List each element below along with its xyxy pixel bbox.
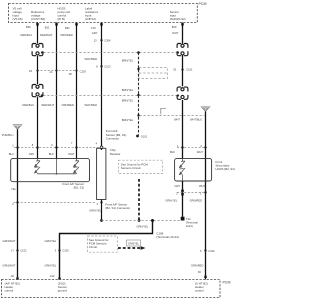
pin B21 xyxy=(45,23,58,29)
sensor ground riser junction dot xyxy=(151,219,154,222)
svg-text:BLK: BLK xyxy=(49,152,54,156)
junction dot on W5 connector xyxy=(177,51,179,53)
svg-text:C103: C103 xyxy=(104,64,111,68)
svg-text:C103: C103 xyxy=(80,70,87,74)
connector C304 symbol on W1 (upper) xyxy=(32,44,43,56)
wire WL from left shield xyxy=(17,129,19,279)
svg-text:A6: A6 xyxy=(11,274,15,278)
svg-text:GRN/YEL: GRN/YEL xyxy=(137,225,149,229)
sensor cell 2 (variable) xyxy=(74,159,79,174)
svg-text:GRN/YEL: GRN/YEL xyxy=(45,263,57,267)
dot right pin1 xyxy=(181,146,183,148)
svg-text:ORN/RED: ORN/RED xyxy=(60,33,72,37)
svg-text:C15: C15 xyxy=(91,26,96,30)
svg-text:B22: B22 xyxy=(65,26,70,30)
pin A6 xyxy=(11,274,19,280)
chip resistor bottom lead xyxy=(101,200,103,220)
Front A/F Sensor box xyxy=(11,159,90,182)
svg-text:WHT/BLU: WHT/BLU xyxy=(190,118,202,122)
svg-text:GRN/WHT: GRN/WHT xyxy=(3,263,16,267)
svg-text:WHT: WHT xyxy=(68,152,74,156)
junction 3 / C103 on WG xyxy=(55,249,69,253)
svg-text:WHT/RED: WHT/RED xyxy=(85,57,98,61)
svg-text:C102: C102 xyxy=(20,249,27,253)
svg-text:GRN/RED: GRN/RED xyxy=(190,198,202,202)
junction dot on dashed C304 line at W1 xyxy=(41,51,43,53)
svg-text:A5: A5 xyxy=(198,270,202,274)
svg-text:ORN/RED: ORN/RED xyxy=(62,103,74,107)
Front Secondary HO2S box xyxy=(175,159,212,181)
connector row (A/F sensor) dashed y=147.6 xyxy=(14,147,100,149)
dot right pin4 xyxy=(204,146,206,148)
shield symbol right xyxy=(201,107,210,112)
pin B29 xyxy=(26,23,39,29)
ground G101 dot xyxy=(136,135,139,138)
pin C15 xyxy=(91,23,103,29)
See Ground annotation box (middle) xyxy=(119,160,163,173)
junction number 13 / C304 on W4 xyxy=(94,38,111,42)
connector circles on WA xyxy=(181,190,183,192)
svg-text:G101: G101 xyxy=(141,135,148,139)
arrowhead xyxy=(141,246,146,250)
svg-text:WHT/RED: WHT/RED xyxy=(85,103,98,107)
svg-text:GRN/WHT: GRN/WHT xyxy=(3,239,16,243)
svg-text:PCM: PCM xyxy=(223,280,231,284)
dot pin6 xyxy=(55,146,57,148)
svg-text:BRN/YEL: BRN/YEL xyxy=(122,88,134,92)
dot W2 row2 xyxy=(55,69,57,71)
dot pin1 xyxy=(16,146,18,148)
shield drain dashed wire xyxy=(138,53,140,136)
chip resistor box xyxy=(97,148,106,199)
See Ground annotation box (bottom) xyxy=(88,236,118,252)
svg-text:WHT: WHT xyxy=(174,118,180,122)
dot pin2 xyxy=(16,201,18,203)
svg-text:WHT: WHT xyxy=(197,150,203,154)
annotation arrow (thick dashed) down to T12 link xyxy=(138,179,140,220)
dashed branch to right shield y115.5 xyxy=(140,115,205,117)
svg-text:VS cellvoltageinput(VS K6): VS cellvoltageinput(VS K6) xyxy=(13,7,23,22)
lower right connector row dashed y=192.5 xyxy=(177,192,205,194)
annotation arrow right (thick dashed) xyxy=(118,247,141,249)
svg-text:C103: C103 xyxy=(62,249,69,253)
wire W5 from B19 xyxy=(182,23,184,159)
chip resistor top terminal circle xyxy=(100,146,103,149)
svg-text:B29: B29 xyxy=(26,25,31,29)
wire WA from W5 through box to T12 xyxy=(182,181,184,217)
page link bracket xyxy=(161,108,166,114)
junction dot lower W1 xyxy=(41,94,43,96)
pin C12 xyxy=(50,274,61,280)
junction dot lower W5 xyxy=(177,94,179,96)
wire W2 RED/WHT from B21 xyxy=(56,23,58,159)
svg-text:BRN/YEL: BRN/YEL xyxy=(122,99,134,103)
PCM module box (top, dashed) xyxy=(9,4,198,23)
connector symbol on W1 (lower) xyxy=(32,85,43,97)
GRN/YEL boxed label xyxy=(127,240,141,246)
dot W3 row2 xyxy=(75,69,77,71)
svg-text:GRY: GRY xyxy=(175,184,181,188)
junction 20 / C101 on W5 xyxy=(173,68,193,72)
lower connector row dashed y=203.5 xyxy=(14,201,97,203)
heater cell symbol xyxy=(180,159,186,181)
wire WB from right shield xyxy=(205,112,207,280)
dashed connector link line y=95 xyxy=(43,95,176,97)
connector symbol on W5 (lower) xyxy=(177,87,188,99)
dot pin7 xyxy=(75,146,77,148)
junction 6 / C102 on WB xyxy=(200,249,215,253)
svg-text:WHT: WHT xyxy=(199,184,205,188)
pin B19 xyxy=(172,23,184,28)
wire W4 from C15 to chip resistor xyxy=(101,23,103,151)
svg-text:C101: C101 xyxy=(186,68,193,72)
dashed connector link line y=52.6 xyxy=(44,52,177,54)
svg-text:BRN/YEL: BRN/YEL xyxy=(122,118,134,122)
dot pin8 xyxy=(36,146,38,148)
svg-text:RED/WHT: RED/WHT xyxy=(40,33,53,37)
sensor cell 1 (variable) xyxy=(35,159,40,174)
svg-text:RED/BLU: RED/BLU xyxy=(21,33,33,37)
svg-text:GRN/YEL: GRN/YEL xyxy=(89,209,101,213)
junction 17 / C102 on WL xyxy=(11,249,27,253)
svg-text:RED/BLU: RED/BLU xyxy=(23,103,35,107)
dot W1 row2 xyxy=(36,69,38,71)
svg-text:PCM: PCM xyxy=(199,2,207,6)
sensor ground riser wire xyxy=(60,221,153,280)
svg-text:C102: C102 xyxy=(208,249,215,253)
PCM module box (bottom, dashed) xyxy=(2,280,221,298)
arrow end dot xyxy=(138,219,141,222)
connector symbol on W5 (upper) xyxy=(177,44,188,56)
shield junction dot y69 xyxy=(137,68,139,70)
svg-text:BLK: BLK xyxy=(170,150,175,154)
svg-text:GRY: GRY xyxy=(29,152,35,156)
right connector row pins 1/4 dashed xyxy=(177,147,205,149)
dot lower right pin3 xyxy=(204,191,206,193)
svg-text:Front A/F Sensor(B2, S1) Conne: Front A/F Sensor(B2, S1) Connector xyxy=(105,202,130,210)
svg-text:PUR/BLU: PUR/BLU xyxy=(2,133,14,137)
svg-text:BRN/YEL: BRN/YEL xyxy=(122,59,134,63)
svg-text:C304: C304 xyxy=(104,38,111,42)
internal junction dot xyxy=(56,173,58,175)
svg-text:GRN/RED: GRN/RED xyxy=(191,263,203,267)
svg-text:GRY: GRY xyxy=(92,31,98,35)
shield drain start dot xyxy=(137,51,140,54)
svg-text:WHT: WHT xyxy=(172,31,178,35)
wire W1 RED/BLU from B29 xyxy=(37,23,39,159)
svg-text:C12: C12 xyxy=(50,274,55,278)
svg-text:B21: B21 xyxy=(45,26,50,30)
internal link wire in sensor box xyxy=(38,159,77,174)
svg-text:GRN/YEL: GRN/YEL xyxy=(165,198,177,202)
dashed link to T12 y=220.3 xyxy=(102,220,181,222)
pin A5 xyxy=(198,270,207,278)
shield junction dot y115.5 xyxy=(137,114,139,116)
chip lead end dot xyxy=(100,219,103,222)
T12 terminal joint square xyxy=(181,217,185,221)
svg-text:YEL: YEL xyxy=(11,187,17,191)
dashed rect off shield line xyxy=(139,68,168,79)
shield symbol left xyxy=(13,125,22,130)
svg-text:(B2, S1): (B2, S1) xyxy=(74,185,85,189)
svg-text:GRN/YEL: GRN/YEL xyxy=(128,242,140,245)
wire W3 ORN/RED from B22 xyxy=(76,23,78,159)
svg-text:RED/WHT: RED/WHT xyxy=(42,103,55,107)
shield junction dot y95 xyxy=(137,94,139,96)
svg-text:B19: B19 xyxy=(172,25,177,29)
svg-text:GRN/YEL: GRN/YEL xyxy=(45,239,57,243)
pin B22 xyxy=(65,23,78,30)
dashed row y=70.6 with terminal numbers xyxy=(37,70,77,72)
junction number 8 / C103 on W4 xyxy=(96,64,111,68)
svg-text:BLU: BLU xyxy=(9,152,14,156)
